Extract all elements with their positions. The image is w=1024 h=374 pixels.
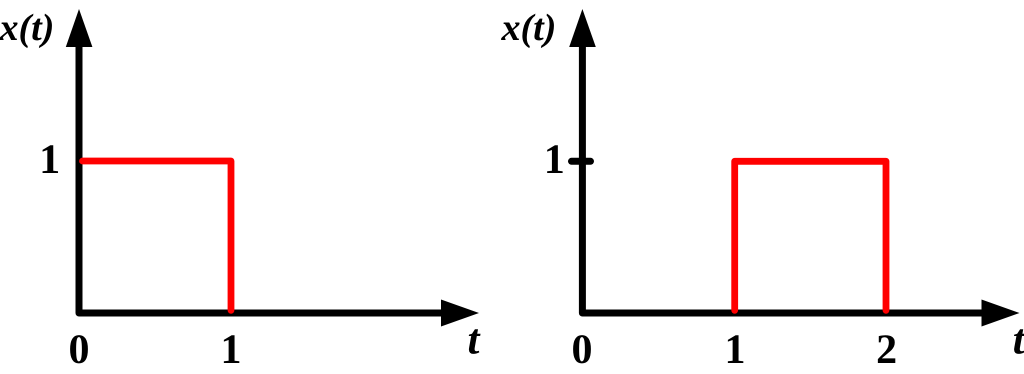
- left y-axis arrowhead: [66, 9, 93, 47]
- right plot: y-axis and x-axis wire (L shape): [582, 43, 987, 313]
- left y-axis value label 1: [43, 145, 58, 173]
- right red pulse signal rect(t-1) from t=1 to t=2: [735, 161, 886, 310]
- right x-axis value label 1: [728, 335, 743, 363]
- right y=1 tick mark: [572, 158, 591, 165]
- right axis label t: [1014, 329, 1024, 354]
- left axis label t: [469, 329, 481, 354]
- left x-axis value label 1: [224, 335, 239, 363]
- left axis label x(t): [0, 14, 52, 48]
- right y-axis value label 1: [547, 145, 562, 173]
- right origin label 0: [573, 335, 591, 363]
- right y-axis arrowhead: [569, 9, 596, 47]
- right x-axis value label 2: [878, 335, 895, 363]
- right x-axis arrowhead: [982, 300, 1020, 327]
- right axis label x(t): [501, 14, 554, 48]
- left origin label 0: [70, 335, 88, 363]
- left red pulse signal rect(t) from t=0 to t=1: [83, 161, 232, 310]
- left x-axis arrowhead: [441, 300, 479, 327]
- left plot: y-axis and x-axis wire (L shape): [79, 43, 447, 313]
